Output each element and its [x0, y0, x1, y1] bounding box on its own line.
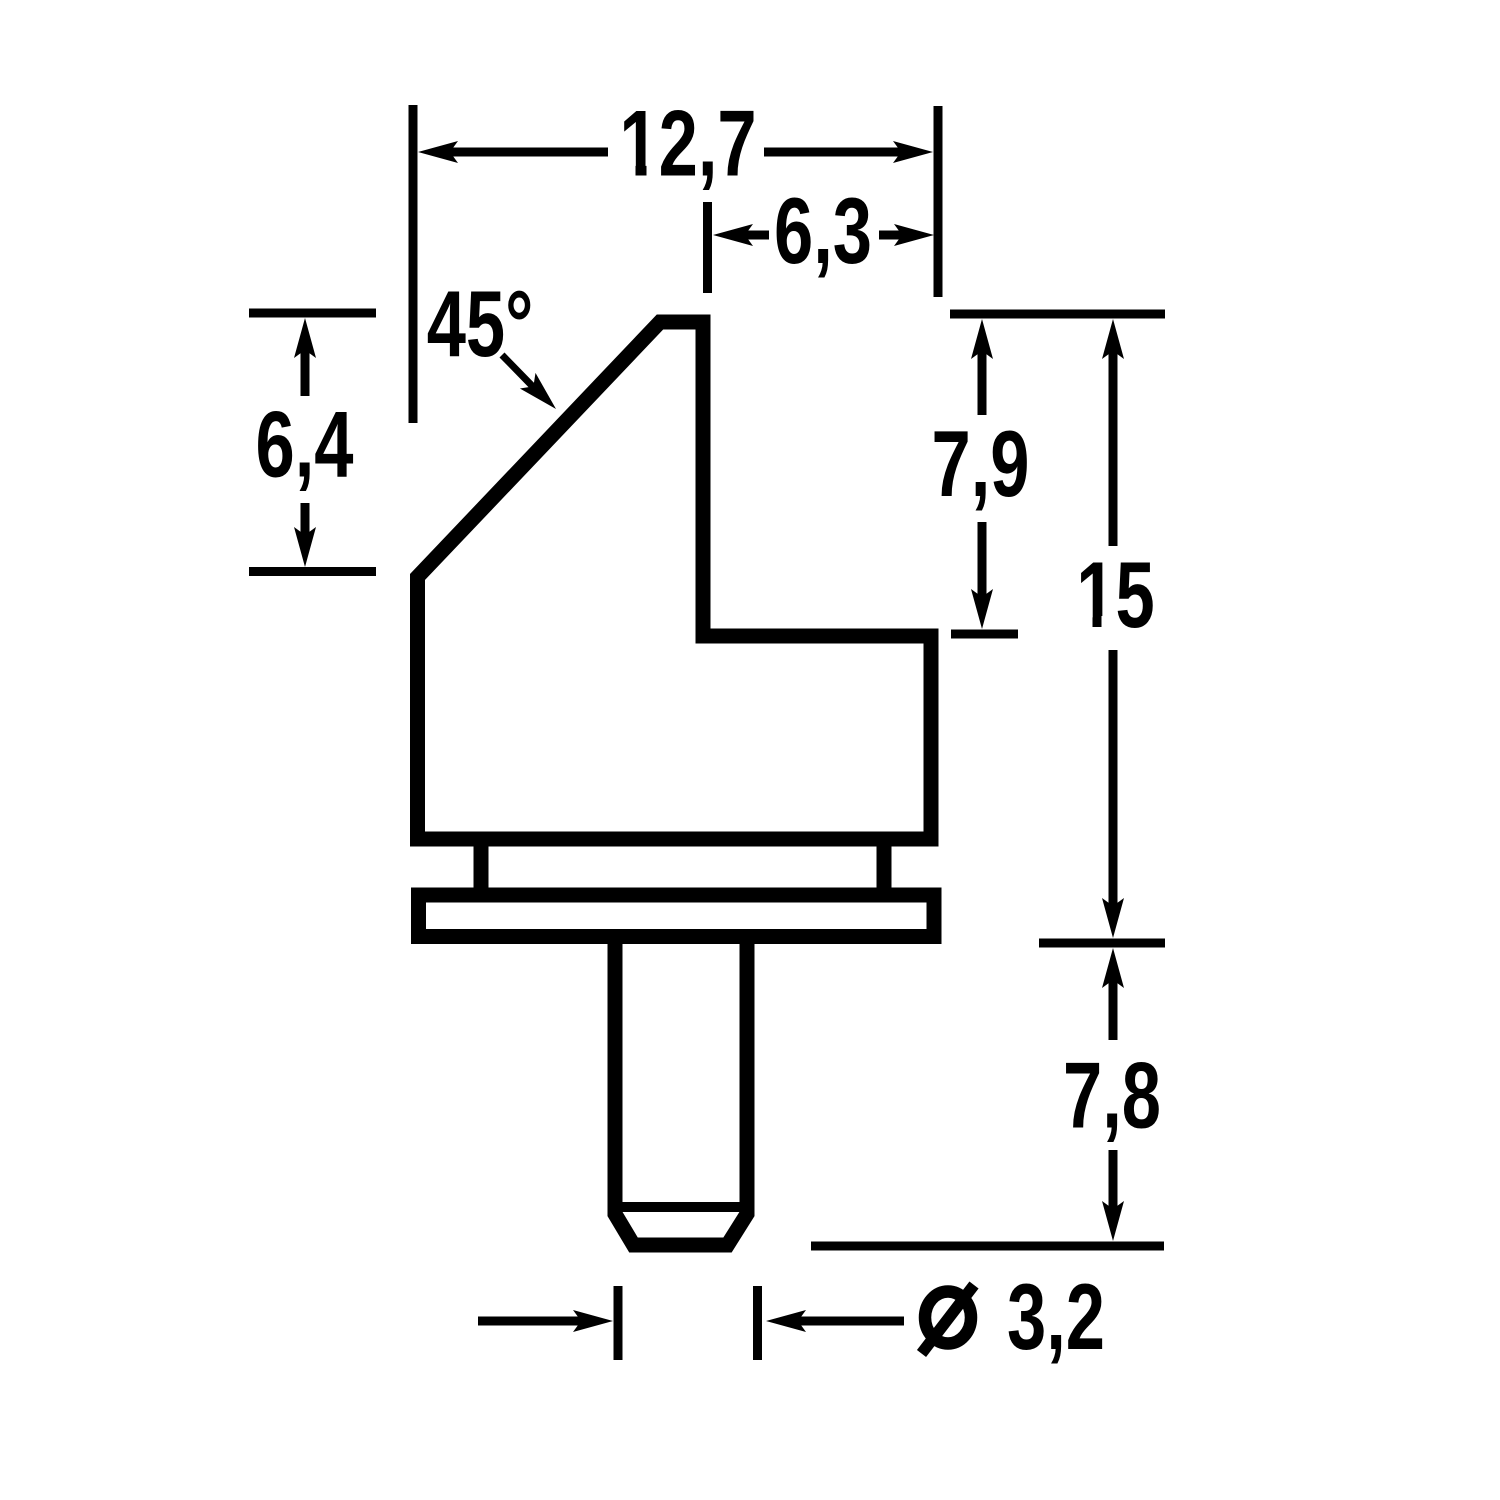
arrow down (15) [1102, 898, 1124, 938]
part body outline [418, 322, 932, 839]
arrow up (15) [1102, 319, 1124, 359]
flange left vertical [474, 846, 489, 896]
dimension diameter left line [478, 1317, 583, 1326]
baseline 7,8 bottom [811, 1242, 1164, 1251]
arrow right (diameter left) [573, 1310, 613, 1332]
base plate [419, 895, 935, 937]
dimension 7,9 line [978, 349, 987, 415]
tick 6,3 [703, 202, 712, 293]
tick 6,4 bottom [249, 567, 376, 576]
arrow up (7,9) [971, 319, 993, 359]
dimension 12,7 line [448, 148, 608, 157]
extension line left (12,7) [409, 105, 418, 423]
arrow up (7,8) [1102, 948, 1124, 988]
tick diameter right [753, 1286, 762, 1360]
arrow left (6,3) [713, 224, 753, 246]
arrow left (12,7) [418, 141, 458, 163]
flange right vertical [877, 846, 892, 896]
arrow down (7,9) [971, 589, 993, 629]
arrow left (diameter right) [766, 1310, 806, 1332]
svg-text:15: 15 [1076, 542, 1154, 647]
svg-text:12,7: 12,7 [619, 91, 756, 196]
dimension 6,3 line [743, 231, 769, 240]
svg-text:6,3: 6,3 [774, 178, 872, 283]
svg-text:45°: 45° [427, 271, 534, 376]
leader arrow 45 degrees [520, 373, 556, 409]
svg-text:3,2: 3,2 [1007, 1264, 1105, 1369]
arrow right (6,3) [894, 224, 934, 246]
arrow right (12,7) [893, 141, 933, 163]
svg-text:7,9: 7,9 [931, 411, 1029, 516]
svg-text:6,4: 6,4 [255, 392, 353, 497]
dimension 15 line [1109, 349, 1118, 546]
tick 7,9 bottom [951, 630, 1018, 639]
tick 6,4 top [249, 309, 376, 318]
arrow down (6,4) [294, 527, 316, 567]
extension line right (12,7 / 6,3) [934, 106, 943, 297]
dimension 6,4 line [301, 348, 310, 396]
stud chamfer line [616, 1202, 746, 1212]
label diameter symbol [925, 1292, 971, 1344]
stud outline [615, 943, 747, 1245]
dimension 7,8 line [1109, 978, 1118, 1040]
tick 15 / 7,8 middle [1039, 939, 1165, 948]
arrow up (6,4) [294, 318, 316, 358]
leader line 45 degrees [502, 355, 542, 396]
tick 7,9 and 15 top [950, 310, 1165, 319]
arrow down (7,8) [1102, 1201, 1124, 1241]
dimension diameter right line [796, 1317, 904, 1326]
tick diameter left [614, 1286, 623, 1360]
svg-text:7,8: 7,8 [1063, 1043, 1161, 1148]
